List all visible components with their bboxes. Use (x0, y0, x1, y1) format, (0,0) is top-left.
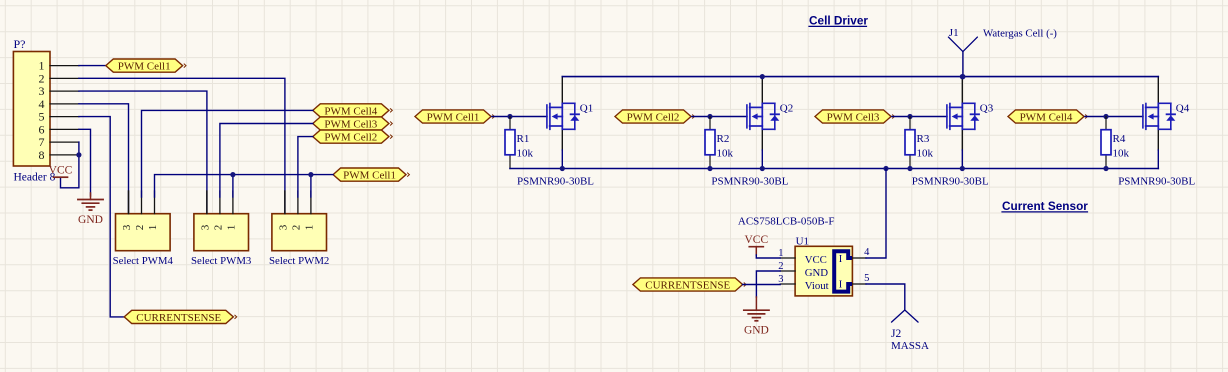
svg-text:Q1: Q1 (580, 103, 593, 115)
svg-text:PWM Cell1: PWM Cell1 (343, 170, 396, 182)
svg-text:PSMNR90-30BL: PSMNR90-30BL (711, 175, 788, 187)
svg-text:I: I (839, 254, 843, 265)
svg-text:10k: 10k (917, 148, 934, 160)
svg-text:R1: R1 (517, 133, 530, 145)
svg-text:4: 4 (864, 247, 870, 258)
svg-text:2: 2 (212, 225, 224, 231)
svg-text:CURRENTSENSE: CURRENTSENSE (136, 312, 221, 324)
svg-text:PSMNR90-30BL: PSMNR90-30BL (517, 175, 594, 187)
svg-text:10k: 10k (1113, 148, 1130, 160)
svg-text:PWM Cell1: PWM Cell1 (427, 111, 480, 123)
svg-text:VCC: VCC (49, 165, 73, 177)
svg-text:1: 1 (147, 225, 159, 231)
svg-text:Select PWM4: Select PWM4 (113, 255, 174, 267)
svg-text:3: 3 (778, 274, 783, 285)
svg-text:5: 5 (864, 273, 869, 284)
svg-text:ACS758LCB-050B-F: ACS758LCB-050B-F (738, 216, 835, 228)
svg-text:Cell Driver: Cell Driver (809, 14, 868, 28)
svg-text:R3: R3 (917, 133, 930, 145)
svg-text:Select PWM2: Select PWM2 (269, 255, 329, 267)
svg-text:2: 2 (778, 261, 783, 272)
svg-text:2: 2 (134, 225, 146, 231)
svg-text:Viout: Viout (805, 280, 829, 292)
svg-text:Q4: Q4 (1176, 103, 1190, 115)
svg-text:J1: J1 (949, 27, 959, 39)
svg-text:2: 2 (290, 225, 302, 231)
svg-text:Q3: Q3 (980, 103, 994, 115)
svg-text:R4: R4 (1113, 133, 1126, 145)
svg-text:3: 3 (199, 224, 211, 230)
svg-text:Q2: Q2 (780, 103, 793, 115)
svg-text:J2: J2 (891, 328, 901, 340)
svg-text:GND: GND (744, 325, 769, 337)
svg-text:Watergas Cell (-): Watergas Cell (-) (983, 28, 1057, 40)
svg-text:PWM Cell4: PWM Cell4 (1020, 111, 1073, 123)
svg-text:I: I (839, 280, 843, 291)
svg-text:PWM Cell3: PWM Cell3 (324, 118, 377, 130)
svg-text:PWM Cell4: PWM Cell4 (324, 105, 377, 117)
svg-text:GND: GND (78, 214, 103, 226)
svg-text:PSMNR90-30BL: PSMNR90-30BL (912, 175, 989, 187)
svg-text:MASSA: MASSA (891, 340, 929, 352)
svg-text:1: 1 (225, 225, 237, 231)
svg-text:8: 8 (39, 148, 45, 162)
svg-text:U1: U1 (796, 235, 809, 247)
svg-text:P?: P? (14, 37, 26, 51)
svg-text:10k: 10k (517, 148, 534, 160)
svg-text:PSMNR90-30BL: PSMNR90-30BL (1118, 175, 1195, 187)
svg-text:R2: R2 (717, 133, 730, 145)
svg-text:PWM Cell2: PWM Cell2 (627, 111, 680, 123)
svg-text:PWM Cell3: PWM Cell3 (827, 111, 880, 123)
svg-text:Current Sensor: Current Sensor (1002, 199, 1088, 213)
svg-text:PWM Cell2: PWM Cell2 (324, 132, 377, 144)
svg-text:3: 3 (277, 224, 289, 230)
svg-text:1: 1 (303, 225, 315, 231)
svg-text:CURRENTSENSE: CURRENTSENSE (645, 279, 730, 291)
svg-text:1: 1 (778, 248, 783, 259)
svg-text:VCC: VCC (744, 234, 768, 246)
svg-text:PWM Cell1: PWM Cell1 (118, 61, 171, 73)
svg-text:GND: GND (805, 267, 829, 279)
svg-text:10k: 10k (717, 148, 734, 160)
svg-text:VCC: VCC (805, 254, 827, 266)
svg-text:3: 3 (121, 224, 133, 230)
svg-text:Select PWM3: Select PWM3 (191, 255, 251, 267)
